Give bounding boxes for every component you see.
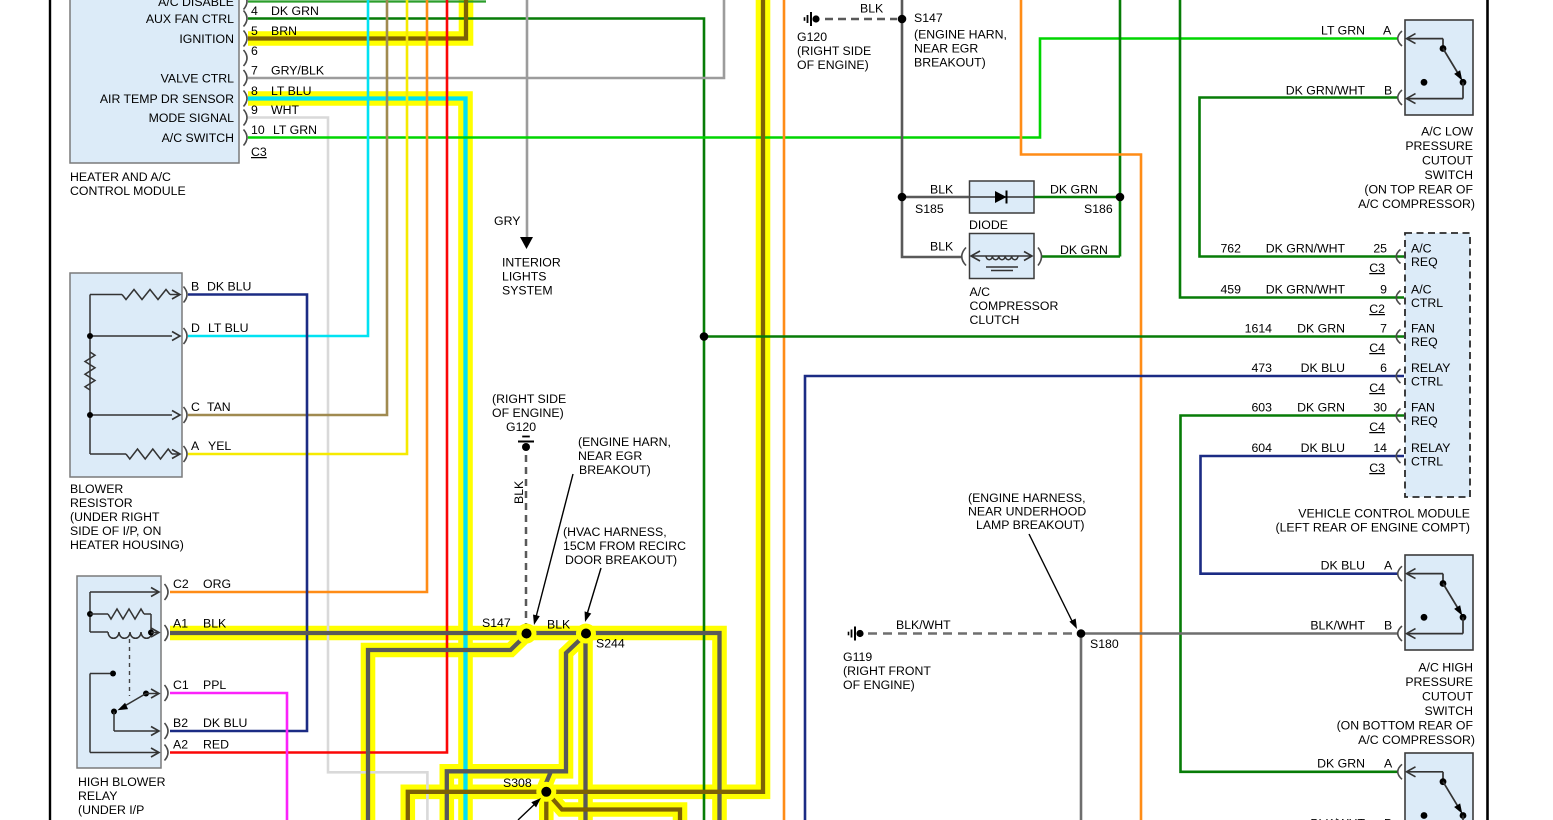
svg-text:(RIGHT SIDE: (RIGHT SIDE xyxy=(492,392,566,406)
svg-text:(ON TOP REAR OF: (ON TOP REAR OF xyxy=(1364,183,1473,197)
svg-text:HEATER AND A/C: HEATER AND A/C xyxy=(70,170,171,184)
wire LT BLU vertical to blower pin D xyxy=(188,0,368,336)
wire DK GRN/WHT 762 switch B to VCM pin 25 xyxy=(1200,98,1405,257)
ground G120 mid xyxy=(518,437,534,452)
svg-text:TAN: TAN xyxy=(207,400,231,414)
svg-text:DK BLU: DK BLU xyxy=(207,280,251,294)
VCM wire 1614 labels xyxy=(1245,322,1388,356)
svg-text:(HVAC HARNESS,: (HVAC HARNESS, xyxy=(563,525,667,539)
wire BRN pin5 (core) xyxy=(248,0,466,39)
ground G119 xyxy=(849,627,864,641)
wire DK BLU blower pin B to relay pin B2 xyxy=(170,295,307,732)
svg-text:DK GRN: DK GRN xyxy=(1317,757,1365,771)
blower resistor box xyxy=(70,273,182,477)
svg-text:A/C: A/C xyxy=(1411,283,1432,297)
svg-text:A2: A2 xyxy=(173,738,188,752)
svg-text:RESISTOR: RESISTOR xyxy=(70,496,133,510)
svg-text:PPL: PPL xyxy=(203,678,226,692)
svg-text:NEAR UNDERHOOD: NEAR UNDERHOOD xyxy=(968,505,1086,519)
svg-text:(UNDER I/P: (UNDER I/P xyxy=(78,803,144,817)
A/C fan cutout switch internals xyxy=(1398,764,1467,820)
wire row3 (A/C DISABLE) green xyxy=(248,0,486,2)
svg-text:DK GRN: DK GRN xyxy=(271,4,319,18)
svg-text:G120: G120 xyxy=(797,30,827,44)
svg-text:7: 7 xyxy=(1380,322,1387,336)
highlight band BLK A1-S147-S244 bus xyxy=(170,633,720,820)
svg-text:REQ: REQ xyxy=(1411,255,1438,269)
hvac harness label xyxy=(563,525,686,567)
diode symbol xyxy=(970,191,1035,204)
svg-text:C3: C3 xyxy=(1369,261,1385,275)
G120 mid label xyxy=(492,392,566,434)
wire BLK core splice lead to S308 xyxy=(544,771,551,788)
wire DK GRN/WHT 459 to VCM pin 9 xyxy=(1180,0,1404,298)
svg-text:MODE SIGNAL: MODE SIGNAL xyxy=(149,111,235,125)
svg-text:VEHICLE CONTROL MODULE: VEHICLE CONTROL MODULE xyxy=(1298,507,1470,521)
svg-text:(ENGINE HARN,: (ENGINE HARN, xyxy=(578,435,671,449)
wire RED to relay pin A2 xyxy=(170,0,447,753)
svg-text:CLUTCH: CLUTCH xyxy=(970,313,1020,327)
wire BRN core S308 drop xyxy=(544,792,548,820)
svg-text:A/C: A/C xyxy=(1411,242,1432,256)
svg-text:DIODE: DIODE xyxy=(969,218,1008,232)
heater module pin numbers and wire colors xyxy=(251,4,325,159)
svg-text:DK GRN/WHT: DK GRN/WHT xyxy=(1286,84,1366,98)
svg-text:DK BLU: DK BLU xyxy=(1301,441,1345,455)
wire BLK/WHT S180 to high pressure switch B xyxy=(1081,632,1398,635)
highlight band BLK splice lead to S308 xyxy=(544,771,551,788)
right page border xyxy=(1486,0,1489,820)
A/C compressor clutch internals xyxy=(962,248,1042,271)
wire ORG engine bay xyxy=(1021,0,1141,820)
clutch labels xyxy=(930,240,1108,328)
svg-text:C4: C4 xyxy=(1369,381,1385,395)
svg-text:RELAY: RELAY xyxy=(78,789,117,803)
svg-text:LAMP BREAKOUT): LAMP BREAKOUT) xyxy=(976,518,1084,532)
interior lights system label xyxy=(502,256,561,298)
svg-text:SYSTEM: SYSTEM xyxy=(502,284,553,298)
BLK rotated label xyxy=(512,480,526,504)
engine harness underhood label xyxy=(968,491,1086,532)
pointer arrow to S308 xyxy=(518,795,543,820)
svg-text:C3: C3 xyxy=(1369,461,1385,475)
svg-text:762: 762 xyxy=(1220,242,1241,256)
svg-text:604: 604 xyxy=(1251,441,1272,455)
highlight band BRN S308 drop xyxy=(539,792,554,820)
svg-text:BLK/WHT: BLK/WHT xyxy=(1310,817,1365,820)
VCM wire 603 labels xyxy=(1251,401,1387,435)
svg-text:A/C COMPRESSOR): A/C COMPRESSOR) xyxy=(1358,197,1475,211)
svg-text:BLK: BLK xyxy=(860,2,884,16)
svg-text:RELAY: RELAY xyxy=(1411,361,1450,375)
svg-text:6: 6 xyxy=(251,44,258,58)
svg-text:A: A xyxy=(191,439,200,453)
svg-text:BLK: BLK xyxy=(512,480,526,504)
svg-text:PRESSURE: PRESSURE xyxy=(1405,675,1473,689)
svg-text:B2: B2 xyxy=(173,716,188,730)
svg-text:LT GRN: LT GRN xyxy=(1321,24,1365,38)
svg-text:BLK/WHT: BLK/WHT xyxy=(1310,619,1365,633)
S185 and diode labels xyxy=(915,183,1113,233)
left page border xyxy=(49,0,51,820)
svg-text:GRY/BLK: GRY/BLK xyxy=(271,64,325,78)
svg-text:LIGHTS: LIGHTS xyxy=(502,270,546,284)
VCM wire 459 labels xyxy=(1220,283,1387,317)
wire BLK S147 down to S185 and clutch xyxy=(902,0,961,257)
svg-text:OF ENGINE): OF ENGINE) xyxy=(492,406,564,420)
svg-text:DK GRN: DK GRN xyxy=(1050,183,1098,197)
svg-text:(RIGHT SIDE: (RIGHT SIDE xyxy=(797,44,871,58)
highlight band BRN vertical-S308 bus xyxy=(408,0,763,820)
svg-text:BLK: BLK xyxy=(930,183,954,197)
svg-text:C2: C2 xyxy=(1369,302,1385,316)
wire ORG to relay pin C2 xyxy=(170,0,427,592)
svg-text:A/C: A/C xyxy=(970,285,991,299)
splice S186 xyxy=(1116,193,1125,202)
svg-text:7: 7 xyxy=(251,64,258,78)
svg-text:B: B xyxy=(1384,619,1392,633)
wire DK GRN diode to S186 xyxy=(1034,196,1120,199)
svg-text:GRY: GRY xyxy=(494,214,520,228)
svg-text:SWITCH: SWITCH xyxy=(1425,168,1474,182)
svg-text:6: 6 xyxy=(1380,361,1387,375)
heater and A/C control module box xyxy=(70,0,239,163)
blower resistor internals xyxy=(85,287,187,463)
wire BLK dashed G120 to S147 top xyxy=(825,18,897,21)
wire WHT pin9 xyxy=(248,118,427,820)
svg-text:A/C HIGH: A/C HIGH xyxy=(1418,661,1473,675)
G120 top label xyxy=(797,30,871,72)
svg-text:5: 5 xyxy=(251,24,258,38)
svg-text:S147: S147 xyxy=(482,616,511,630)
svg-text:A: A xyxy=(1383,24,1392,38)
svg-text:FAN: FAN xyxy=(1411,401,1435,415)
svg-text:REQ: REQ xyxy=(1411,414,1438,428)
low pressure switch caption xyxy=(1358,125,1475,212)
G119 label xyxy=(843,650,931,692)
svg-text:S186: S186 xyxy=(1084,202,1113,216)
diode box xyxy=(970,181,1035,213)
svg-text:(ENGINE HARN,: (ENGINE HARN, xyxy=(914,28,1007,42)
heater module caption xyxy=(70,170,186,198)
A/C low pressure cutout switch box xyxy=(1405,20,1473,115)
svg-text:IGNITION: IGNITION xyxy=(179,32,234,46)
svg-text:4: 4 xyxy=(251,4,258,18)
svg-text:CUTOUT: CUTOUT xyxy=(1422,154,1473,168)
svg-text:14: 14 xyxy=(1373,441,1387,455)
svg-text:G120: G120 xyxy=(506,420,536,434)
svg-text:15CM FROM RECIRC: 15CM FROM RECIRC xyxy=(563,539,686,553)
wire BLK dashed G120 mid to S147 mid xyxy=(525,455,528,627)
svg-text:BLK: BLK xyxy=(203,617,227,631)
svg-text:BREAKOUT): BREAKOUT) xyxy=(579,463,651,477)
svg-text:A/C DISABLE: A/C DISABLE xyxy=(158,0,234,9)
svg-text:BLK: BLK xyxy=(547,618,571,632)
svg-text:AIR TEMP DR SENSOR: AIR TEMP DR SENSOR xyxy=(100,92,234,106)
svg-text:G119: G119 xyxy=(843,650,872,664)
relay caption xyxy=(78,775,166,817)
highlight band BRN pin5 circuit xyxy=(248,0,466,39)
wire TAN to blower pin C xyxy=(188,0,387,415)
highlight band BRN S308 branch xyxy=(546,792,680,820)
svg-text:CUTOUT: CUTOUT xyxy=(1422,690,1473,704)
svg-text:C4: C4 xyxy=(1369,341,1385,355)
svg-text:DK GRN: DK GRN xyxy=(1060,243,1108,257)
svg-text:C1: C1 xyxy=(173,678,189,692)
svg-text:C4: C4 xyxy=(1369,420,1385,434)
wire PPL relay pin C1 xyxy=(170,693,287,820)
svg-text:D: D xyxy=(191,321,200,335)
svg-text:CTRL: CTRL xyxy=(1411,296,1443,310)
svg-text:S147: S147 xyxy=(914,11,943,25)
wire BRN core vertical-S308 bus xyxy=(408,0,763,820)
BLK/WHT label G119 xyxy=(896,618,951,632)
A/C high pressure cutout switch box xyxy=(1405,555,1473,650)
svg-text:CTRL: CTRL xyxy=(1411,375,1443,389)
VCM caption xyxy=(1276,507,1471,535)
svg-text:AUX FAN CTRL: AUX FAN CTRL xyxy=(146,12,234,26)
svg-text:SWITCH: SWITCH xyxy=(1425,704,1474,718)
svg-text:WHT: WHT xyxy=(271,103,299,117)
svg-text:DK GRN/WHT: DK GRN/WHT xyxy=(1266,242,1346,256)
svg-text:603: 603 xyxy=(1251,401,1272,415)
highlight band BLK S244 branch xyxy=(447,634,586,820)
wire LT BLU pin8 (core) xyxy=(248,99,466,820)
wire BLK core S244 drop xyxy=(583,634,587,820)
S147 top label xyxy=(914,11,1007,70)
svg-text:LT BLU: LT BLU xyxy=(271,84,312,98)
svg-text:DK GRN/WHT: DK GRN/WHT xyxy=(1266,283,1346,297)
wire LT GRN pin10 to A/C low pressure switch pin A xyxy=(248,39,1398,138)
svg-text:9: 9 xyxy=(1380,283,1387,297)
svg-text:NEAR EGR: NEAR EGR xyxy=(578,449,642,463)
A/C low pressure cutout switch internals xyxy=(1398,31,1467,105)
svg-text:9: 9 xyxy=(251,103,258,117)
svg-text:REQ: REQ xyxy=(1411,335,1438,349)
svg-text:(RIGHT FRONT: (RIGHT FRONT xyxy=(843,664,931,678)
relay pin labels xyxy=(173,577,247,752)
svg-text:(ON BOTTOM REAR OF: (ON BOTTOM REAR OF xyxy=(1337,719,1474,733)
svg-text:10: 10 xyxy=(251,123,265,137)
svg-text:B: B xyxy=(1384,817,1392,820)
svg-text:1614: 1614 xyxy=(1245,322,1273,336)
svg-text:DK GRN: DK GRN xyxy=(1297,401,1345,415)
svg-text:DK BLU: DK BLU xyxy=(203,716,247,730)
splice S180 xyxy=(1077,629,1086,638)
highlight band BLK S244 drop xyxy=(578,634,593,820)
S308 label xyxy=(503,776,532,790)
svg-text:CTRL: CTRL xyxy=(1411,455,1443,469)
svg-text:YEL: YEL xyxy=(208,439,231,453)
svg-text:DK BLU: DK BLU xyxy=(1301,361,1345,375)
svg-text:A1: A1 xyxy=(173,617,188,631)
A/C fan cutout switch box (bottom, clipped) xyxy=(1405,753,1473,820)
svg-text:C2: C2 xyxy=(173,577,189,591)
splice S147 top xyxy=(898,15,907,24)
svg-text:BRN: BRN xyxy=(271,24,297,38)
high pressure switch pin labels xyxy=(1310,559,1393,633)
wire BLK S185 to diode xyxy=(902,196,970,199)
BLK label top dashed xyxy=(860,2,884,16)
svg-text:A: A xyxy=(1384,757,1393,771)
svg-text:RELAY: RELAY xyxy=(1411,441,1450,455)
svg-text:A: A xyxy=(1384,559,1393,573)
wire DK GRN S186 vertical xyxy=(1119,0,1122,257)
svg-text:HIGH BLOWER: HIGH BLOWER xyxy=(78,775,166,789)
VCM pin names xyxy=(1411,242,1450,469)
low pressure switch pin labels xyxy=(1286,24,1392,98)
wire BLK core S147 branch xyxy=(368,634,527,820)
svg-text:B: B xyxy=(1384,84,1392,98)
blower resistor caption xyxy=(70,482,184,552)
svg-text:B: B xyxy=(191,280,199,294)
svg-text:DK GRN: DK GRN xyxy=(1297,322,1345,336)
svg-text:SIDE OF I/P, ON: SIDE OF I/P, ON xyxy=(70,524,161,538)
svg-text:BLOWER: BLOWER xyxy=(70,482,123,496)
VCM wire 762 labels xyxy=(1220,242,1387,276)
wire DK GRN pin4 to junction and down xyxy=(248,19,704,820)
svg-text:BREAKOUT): BREAKOUT) xyxy=(914,56,986,70)
splice S147 mid xyxy=(517,624,537,644)
arrow to interior lights system xyxy=(520,237,533,249)
svg-text:CONTROL MODULE: CONTROL MODULE xyxy=(70,184,186,198)
engine harn near EGR label xyxy=(578,435,671,477)
svg-text:(ENGINE HARNESS,: (ENGINE HARNESS, xyxy=(968,491,1086,505)
svg-text:OF ENGINE): OF ENGINE) xyxy=(843,678,915,692)
svg-text:S180: S180 xyxy=(1090,637,1119,651)
splice S185 xyxy=(898,193,907,202)
svg-text:LT BLU: LT BLU xyxy=(208,321,249,335)
GRY label xyxy=(494,214,520,228)
wire ORG full height xyxy=(783,0,786,820)
vehicle control module pin connectors xyxy=(1396,250,1400,464)
VCM wire 604 labels xyxy=(1251,441,1387,475)
svg-text:DOOR BREAKOUT): DOOR BREAKOUT) xyxy=(565,553,677,567)
svg-text:S185: S185 xyxy=(915,202,944,216)
A/C high pressure cutout switch internals xyxy=(1398,566,1467,641)
wire DK GRN 1614 junction to VCM pin 7 xyxy=(704,335,1404,338)
pointer arrow to S244 xyxy=(582,568,601,623)
heater module left pin labels xyxy=(100,0,234,145)
svg-text:A/C LOW: A/C LOW xyxy=(1421,125,1473,139)
svg-text:HEATER HOUSING): HEATER HOUSING) xyxy=(70,538,184,552)
svg-text:A/C COMPRESSOR): A/C COMPRESSOR) xyxy=(1358,733,1475,747)
svg-text:8: 8 xyxy=(251,84,258,98)
svg-text:473: 473 xyxy=(1251,361,1272,375)
svg-text:A/C SWITCH: A/C SWITCH xyxy=(162,131,234,145)
svg-text:FAN: FAN xyxy=(1411,322,1435,336)
S180 label xyxy=(1090,637,1119,651)
wire GRY to interior lights xyxy=(526,0,529,237)
wire BLK/WHT dashed G119 to S180 xyxy=(868,632,1075,635)
svg-text:BLK/WHT: BLK/WHT xyxy=(896,618,951,632)
svg-text:BLK: BLK xyxy=(930,240,954,254)
splice S244 xyxy=(576,624,596,644)
wire BRN core S308 branch xyxy=(546,792,680,820)
wire BLK/WHT S180 down xyxy=(1080,634,1083,820)
svg-text:COMPRESSOR: COMPRESSOR xyxy=(970,299,1059,313)
S147 mid label xyxy=(482,616,511,630)
wire DK GRN 603 VCM pin 30 to fan cutout switch A xyxy=(1181,416,1405,772)
svg-text:ORG: ORG xyxy=(203,577,231,591)
svg-text:INTERIOR: INTERIOR xyxy=(502,256,561,270)
svg-text:S244: S244 xyxy=(596,637,625,651)
svg-text:30: 30 xyxy=(1373,401,1387,415)
highlight band LT BLU pin8 circuit xyxy=(248,99,466,820)
wire GRY/BLK pin7 xyxy=(248,0,724,78)
highlight band BLK S147 branch xyxy=(368,634,527,820)
S244 label xyxy=(596,637,625,651)
ground G120 top xyxy=(805,12,820,26)
blower resistor pin labels xyxy=(191,280,251,454)
pointer arrow to S147 mid xyxy=(531,474,573,626)
pointer arrow to S180 xyxy=(1029,534,1080,631)
svg-text:LT GRN: LT GRN xyxy=(273,123,317,137)
heater module pin connectors xyxy=(244,0,248,146)
high blower relay box xyxy=(77,576,161,768)
BLK mid label xyxy=(547,618,571,632)
vehicle control module box xyxy=(1405,233,1470,497)
svg-text:DK BLU: DK BLU xyxy=(1321,559,1365,573)
svg-text:NEAR EGR: NEAR EGR xyxy=(914,42,978,56)
svg-text:25: 25 xyxy=(1373,242,1387,256)
high blower relay internals xyxy=(87,584,168,761)
svg-text:VALVE CTRL: VALVE CTRL xyxy=(161,72,235,86)
svg-text:(UNDER RIGHT: (UNDER RIGHT xyxy=(70,510,160,524)
A/C compressor clutch box xyxy=(970,234,1035,279)
high pressure switch caption xyxy=(1337,661,1475,748)
svg-text:S308: S308 xyxy=(503,776,532,790)
svg-text:PRESSURE: PRESSURE xyxy=(1405,139,1473,153)
svg-text:C: C xyxy=(191,400,200,414)
svg-text:(LEFT REAR OF ENGINE COMPT): (LEFT REAR OF ENGINE COMPT) xyxy=(1276,521,1471,535)
svg-text:C3: C3 xyxy=(251,145,267,159)
wire BLK core A1-S147-S244 bus xyxy=(170,633,720,820)
svg-text:RED: RED xyxy=(203,738,229,752)
wire DK BLU 473 VCM pin 6 xyxy=(805,376,1404,820)
svg-text:OF ENGINE): OF ENGINE) xyxy=(797,58,869,72)
wire YEL to blower pin A xyxy=(188,0,407,454)
wire DK BLU 604 VCM pin 14 to high pressure switch A xyxy=(1201,456,1405,574)
VCM wire 473 labels xyxy=(1251,361,1387,395)
svg-text:459: 459 xyxy=(1220,283,1241,297)
junction DK GRN 1614 xyxy=(700,332,709,341)
wire DK GRN clutch to S186 leg xyxy=(1042,255,1120,258)
splice S308 xyxy=(536,782,556,802)
fan cutout switch pin labels xyxy=(1310,757,1393,820)
wire BLK core S244 branch xyxy=(447,634,586,820)
